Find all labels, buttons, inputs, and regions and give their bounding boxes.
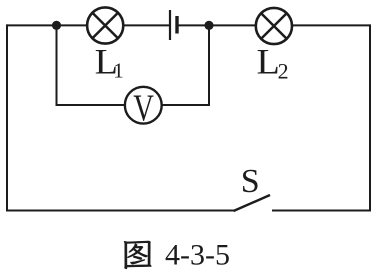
svg-text:V: V bbox=[133, 88, 154, 130]
wire top-left bbox=[7, 24, 90, 26]
svg-text:S: S bbox=[241, 163, 260, 200]
svg-text:2: 2 bbox=[278, 59, 289, 84]
wire L2-to-corner bbox=[289, 24, 370, 26]
caption character tu bbox=[124, 241, 151, 269]
wire left vertical bbox=[6, 24, 8, 210]
label L1 bbox=[95, 42, 124, 83]
label L2 bbox=[257, 42, 289, 84]
battery bbox=[170, 10, 177, 40]
caption figure number 4-3-5 bbox=[165, 239, 230, 272]
switch S lever bbox=[234, 195, 271, 211]
lamp L2 bbox=[256, 8, 292, 44]
junction node B bbox=[204, 21, 213, 30]
svg-text:L: L bbox=[257, 42, 280, 82]
wire L1-to-battery bbox=[120, 24, 170, 26]
wire battery-to-L2 bbox=[177, 24, 258, 26]
wire right vertical bbox=[369, 24, 371, 210]
voltmeter V bbox=[125, 87, 162, 130]
wire voltmeter-right-branch bbox=[159, 25, 209, 105]
lamp L1 bbox=[87, 7, 123, 43]
svg-text:1: 1 bbox=[113, 59, 124, 83]
wire bottom-left bbox=[6, 210, 234, 212]
svg-text:4-3-5: 4-3-5 bbox=[165, 239, 230, 272]
label S bbox=[241, 163, 260, 200]
junction node A bbox=[52, 21, 61, 30]
wire voltmeter-left-branch bbox=[57, 25, 129, 105]
wire bottom-right bbox=[272, 210, 371, 212]
